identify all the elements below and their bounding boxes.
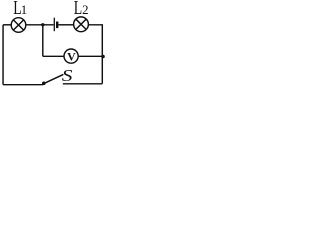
voltmeter V1 [64,49,78,63]
wire bottom-left to switch [3,84,43,86]
wire voltmeter left [43,55,64,57]
wire top-left [3,24,11,26]
svg-text:L: L [74,0,82,19]
wire node A down to voltmeter [42,25,44,57]
node A junction dot [41,23,44,26]
battery BT1 short thick plate [56,22,58,29]
switch S pivot dot [42,82,46,86]
svg-text:2: 2 [82,3,88,17]
node B junction dot [101,55,105,59]
svg-text:S: S [62,67,73,86]
switch S lever [44,75,63,84]
battery BT1 long plate [53,18,55,32]
label S of switch [62,67,73,86]
lamp L1 [11,18,26,33]
lamp L2 [74,17,89,32]
label L1 [13,0,27,19]
wire left vertical [2,25,4,85]
wire L1 to battery [26,24,54,26]
wire L2 to top-right corner and right vertical [88,25,102,84]
wire voltmeter right [78,55,102,57]
wire switch contact to bottom-right corner [63,83,103,85]
svg-text:V: V [67,49,76,63]
label L2 [74,0,89,19]
wire battery to L2 [58,24,73,26]
svg-text:1: 1 [21,3,27,17]
